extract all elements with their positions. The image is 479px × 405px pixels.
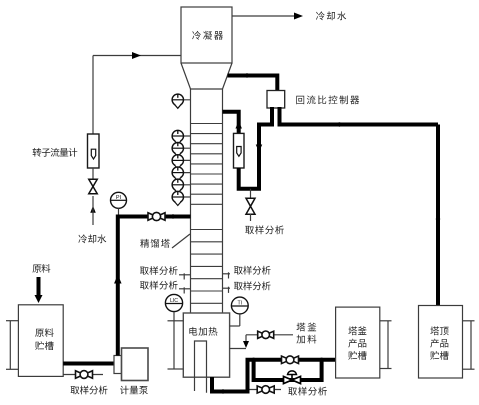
bottoms header [246,358,336,362]
column top edge [191,88,223,90]
feed tank 原料贮槽 [18,305,63,377]
column label leader line [172,234,190,248]
reflux loop pipe [239,125,259,189]
condenser vessel [181,7,232,63]
controller outlet left [270,107,274,127]
sample tap left 2 line [179,288,191,290]
feed sample label 取样分析 [71,386,108,395]
svg-text:LIC: LIC [170,298,178,304]
heater element [195,341,207,393]
top product level gauge [463,320,475,322]
svg-text:TI: TI [237,301,242,307]
feed tank outlet pipe [63,362,114,366]
reboiler drain pipe [212,360,248,392]
sensor TI2 [172,147,190,149]
bottoms sample label 取样分析 [288,387,327,396]
bottoms product label [348,326,366,335]
controller label 回流比控制器 [296,95,359,104]
reflux sample tail [250,214,252,221]
top product tank [419,306,463,379]
sample label left 2 取样分析 [140,281,178,290]
feed riser pipe [118,217,191,356]
feed control valve [148,213,157,221]
sensor TI0 (top section) [172,99,190,101]
reflux header [257,123,274,127]
cooling water riser [92,56,94,135]
sample tap right 1 line [223,273,231,275]
sample label left 1 取样分析 [140,266,178,275]
pipe rotameter to valve [92,168,94,181]
bottoms feed label 塔釜加料 [297,323,317,332]
feed sample valve [76,371,85,379]
reflux inlet pipe [223,112,239,134]
reflux sample stub [250,189,252,199]
condenser label 冷凝器 [192,31,223,40]
drain dot [221,389,225,393]
feed label 原料 [33,264,51,273]
cooling water inlet stub [92,196,94,225]
bottoms feed drop [245,335,247,341]
feed flow arrow [114,275,122,284]
reflux rotameter FI2 [234,133,245,168]
sensor TI3 [172,159,190,161]
sample label right 2 取样分析 [234,281,271,290]
cooling water outlet label 冷却水 [316,11,346,20]
sensor TI6 [172,196,190,198]
reflux sample label 取样分析 [245,225,284,234]
column lower trays [191,229,223,231]
feed sample line [63,374,103,376]
metering pump label 计量泵 [120,386,148,395]
sensor TI4 [172,172,190,174]
bottoms junction dot 1 [251,358,255,362]
LIC tap lower [168,368,184,370]
reflux arrow up [235,121,242,129]
feed tank label [35,328,53,337]
temperature indicator TI [231,297,248,314]
condenser outlet cone [181,63,232,89]
bottoms product tank [336,307,380,378]
rotameter label 转子流量计 [33,148,78,157]
svg-text:PI: PI [116,195,122,201]
bypass control valve [284,376,293,383]
LIC tap upper [168,320,184,322]
bottoms feed line [246,334,293,336]
column right wall [222,89,224,313]
cooling water flow arrow up [90,206,96,213]
distillate dot 2 [436,217,440,221]
bottoms feed arrow [243,341,249,348]
feed junction dot [171,214,175,218]
bottoms sample line [250,389,282,391]
bottoms bypass pipe [254,360,322,380]
bottoms junction dot 2 [319,358,323,362]
cooling water outlet arrow [294,13,303,20]
feed tank level gauge [6,320,18,322]
controller outlet right [278,107,282,127]
condensate dot [245,73,249,77]
sample tap left 1 line [179,274,191,276]
bottoms valve [282,356,291,364]
cooling water inlet label 冷却水 [78,234,106,243]
cooling water inlet arrow [132,52,141,59]
distillate downcomer [436,125,440,306]
top product label [430,326,448,335]
distillate dot [337,122,341,126]
level controller LIC [165,294,182,311]
cooling water inlet line to condenser [93,55,181,57]
column label 精馏塔 [140,239,170,248]
reflux sample valve [246,198,255,206]
pump inlet flange [114,356,122,374]
sample tap right 2 line [223,287,231,289]
cooling water inlet valve [89,179,98,186]
LIC standpipe [173,312,175,369]
sample label right 1 取样分析 [234,266,271,275]
bottoms feed valve [258,331,266,338]
pressure gauge PI [111,192,127,208]
reflux ratio controller box [267,91,285,109]
sensor TI1 [172,135,190,137]
bottoms feed inlet [230,348,246,350]
reboiler label 电加热 [189,327,217,336]
reflux arrow down [256,145,263,153]
reflux rotameter float [237,147,241,157]
metering pump body [122,348,149,381]
feed arrow into tank [37,277,41,296]
column upper trays [191,123,223,125]
column left wall [190,89,192,313]
distillate header [278,123,439,127]
TI stem [239,313,241,326]
condensate pipe to controller [228,76,278,92]
rotameter FI1 float [91,149,95,159]
sensor TI5 [172,184,190,186]
cooling water outlet line [232,15,299,17]
bottoms sample valve [257,386,266,393]
bottoms level gauge [380,320,392,322]
rotameter FI1 body [88,134,100,168]
reboiler box 电加热 [183,313,229,377]
